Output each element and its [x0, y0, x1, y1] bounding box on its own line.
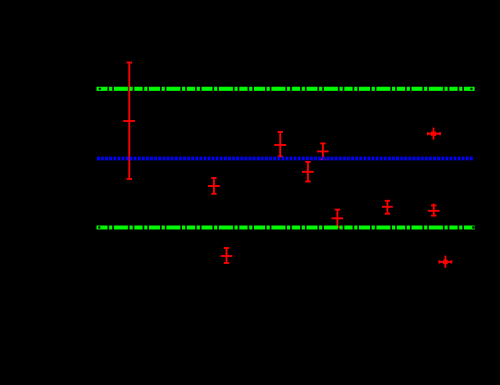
data point P7 (bottom cap hidden under green line) [332, 210, 344, 228]
data point P3 [221, 248, 233, 263]
data point P11 (square marker, capless y error, capped x error) [439, 256, 451, 268]
data point P8 [382, 201, 393, 214]
blue dotted horizontal line [97, 157, 474, 161]
dark dot at lower green line right end [472, 226, 474, 228]
dark dot at upper green line right end [470, 88, 472, 90]
lower green dash-dot horizontal line [97, 225, 475, 229]
dark dot at upper green line left end [99, 88, 101, 90]
data point P10 [428, 204, 440, 217]
data point P2 [208, 178, 220, 194]
data point P9 (square marker, capless y error, capped x error) [428, 128, 440, 140]
data point P6 [317, 143, 329, 159]
upper green dash-dot horizontal line [97, 87, 475, 91]
data point P4 [274, 132, 286, 157]
dark dot at lower green line left end [98, 226, 100, 228]
data point P5 [302, 162, 314, 182]
data point P1 (large vertical error bar) [123, 63, 135, 180]
